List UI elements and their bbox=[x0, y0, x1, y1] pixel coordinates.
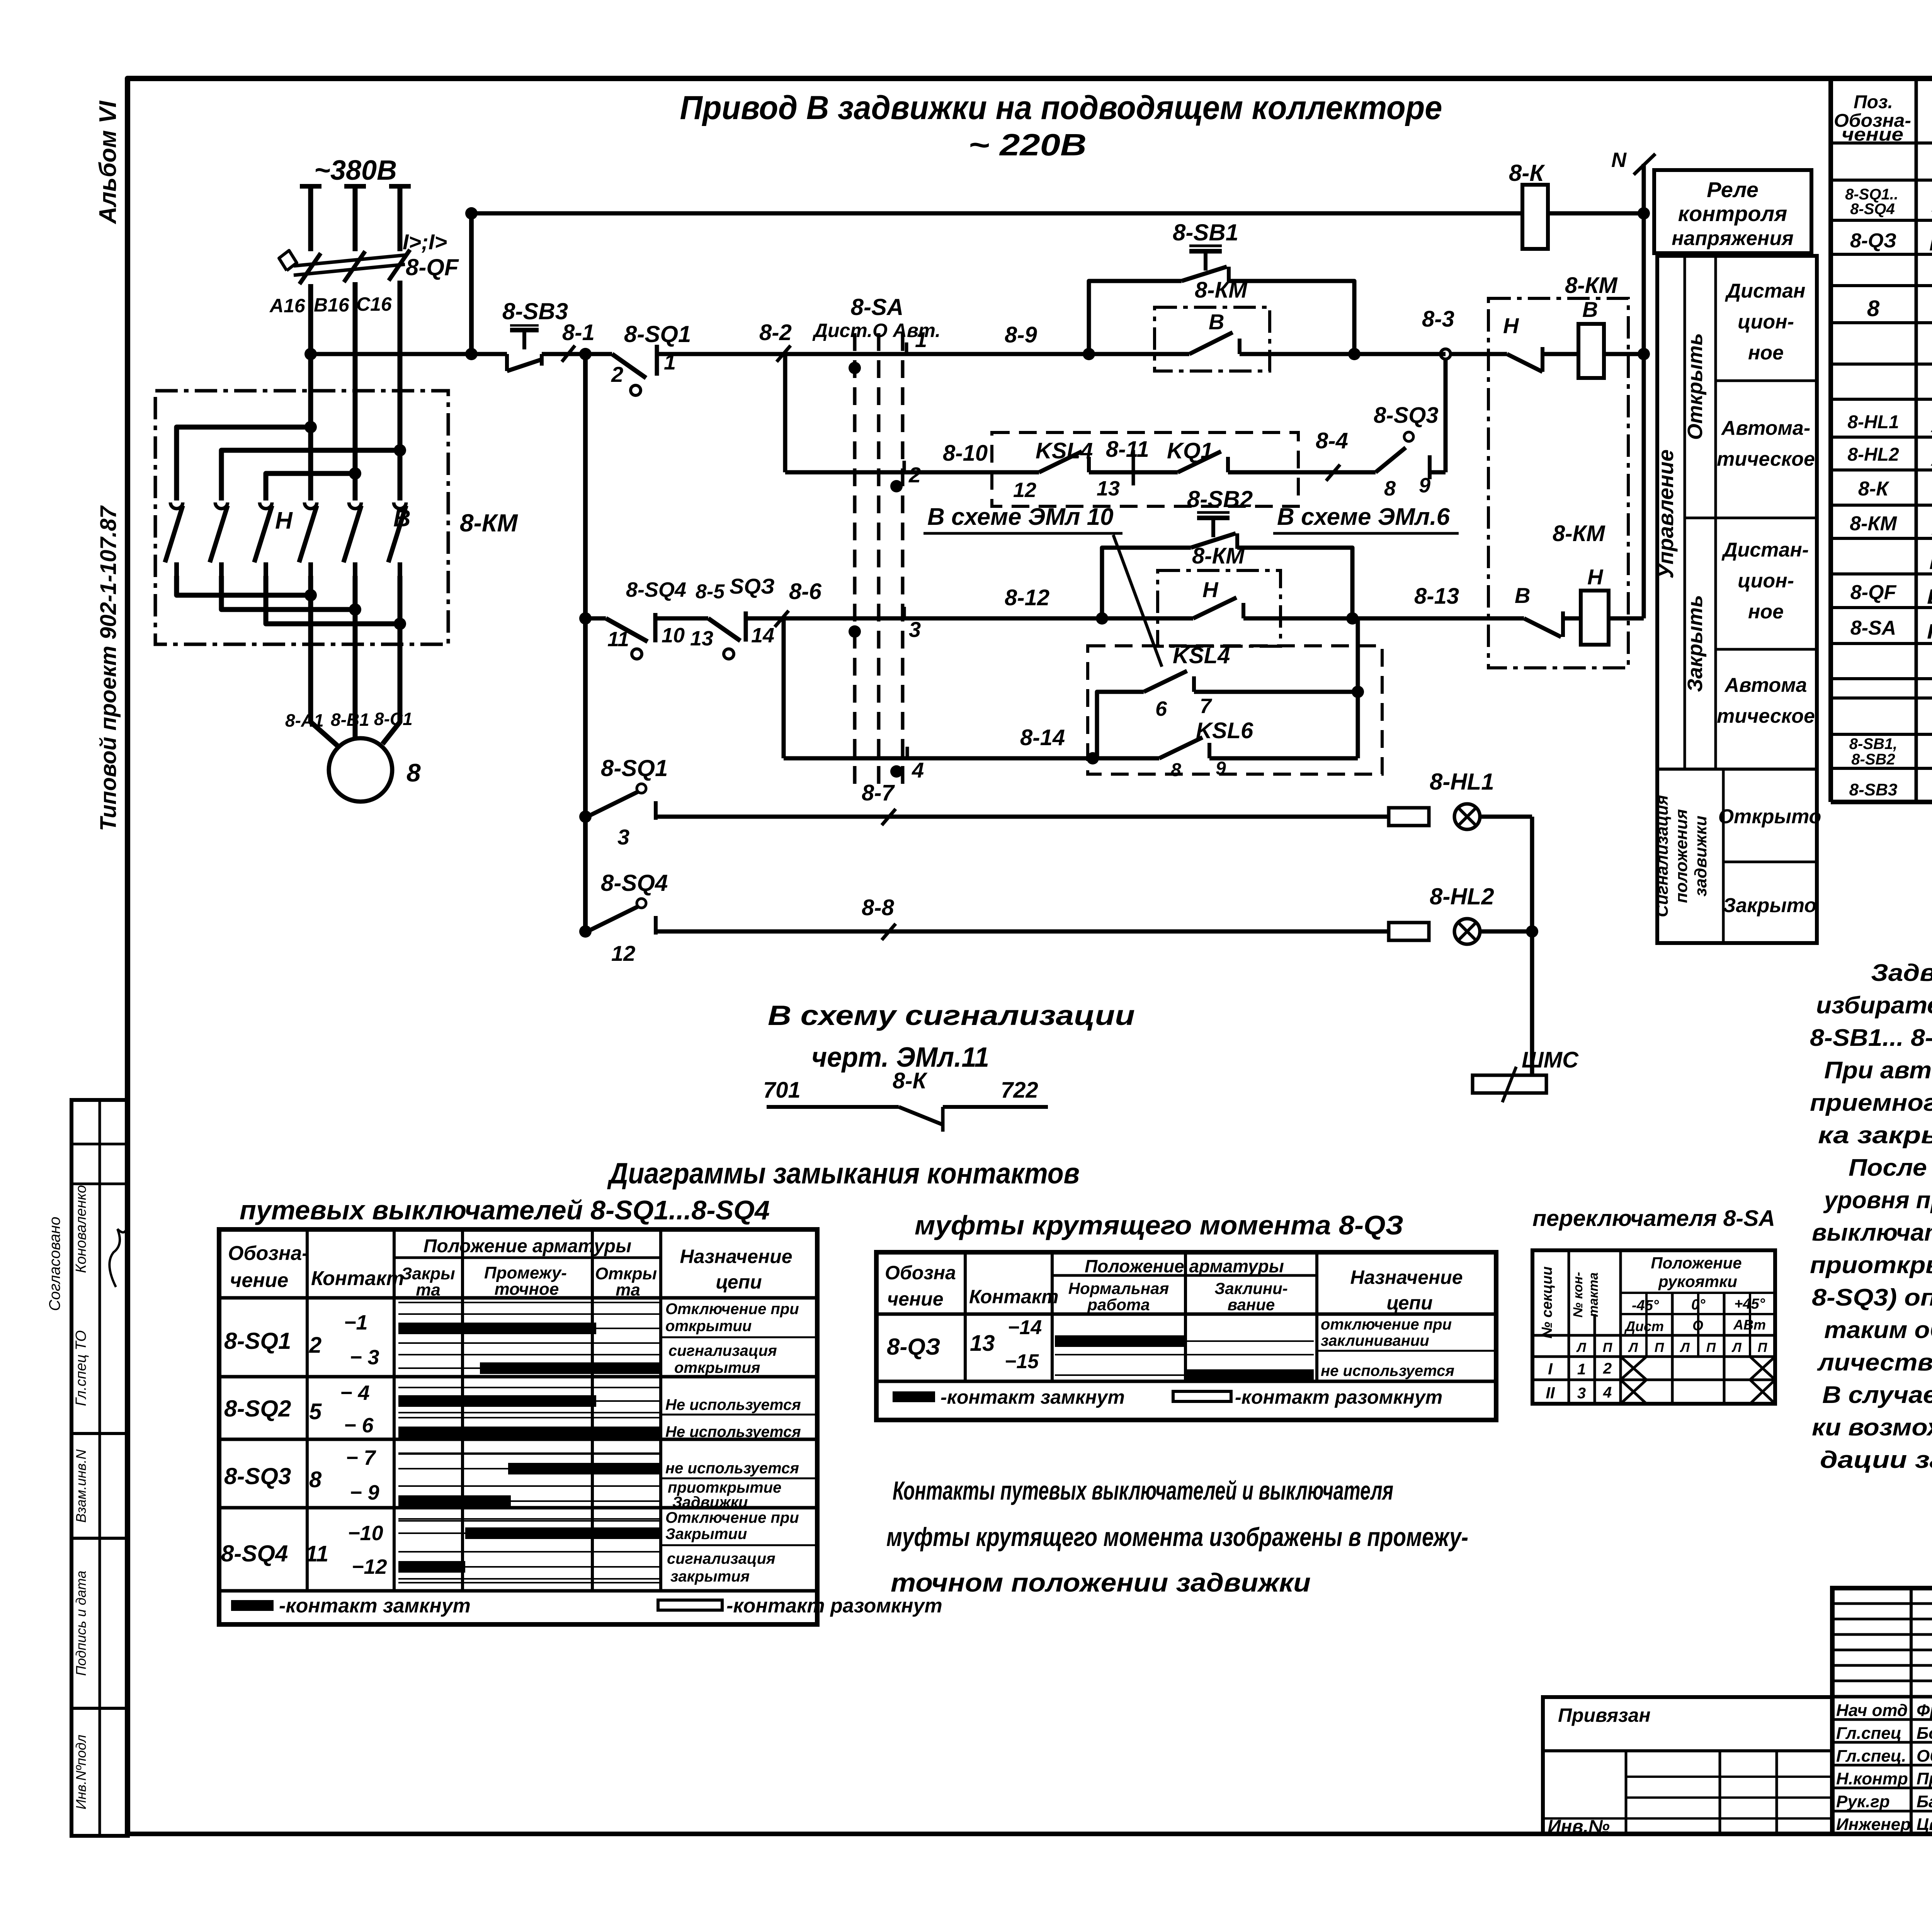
aux contact 8-KM N blade bbox=[1102, 616, 1193, 621]
wire mark 8-11 bbox=[1132, 450, 1135, 485]
SQ3 contact 9 bar bbox=[398, 1500, 661, 1502]
svg-text:Не используется: Не используется bbox=[665, 1396, 801, 1413]
svg-text:Закрытии: Закрытии bbox=[665, 1525, 747, 1542]
svg-text:-контакт замкнут: -контакт замкнут bbox=[940, 1386, 1125, 1408]
phase lead A bbox=[300, 184, 321, 189]
selector dot row4 bbox=[890, 765, 903, 778]
svg-text:работа: работа bbox=[1087, 1296, 1150, 1314]
svg-text:рукоятки: рукоятки bbox=[1658, 1272, 1737, 1290]
svg-text:сигнализация: сигнализация bbox=[667, 1550, 776, 1567]
svg-text:Положение: Положение bbox=[1651, 1254, 1742, 1272]
svg-text:Закрыто: Закрыто bbox=[1723, 894, 1816, 917]
8-KM pole 2 (N) bbox=[215, 502, 228, 509]
aux contact 8-KM V box row1 bbox=[1155, 307, 1270, 371]
svg-text:О: О bbox=[1692, 1318, 1703, 1333]
QZ legend bbox=[893, 1391, 935, 1402]
relay box Rele kontrolya napryazheniya bbox=[1654, 170, 1811, 253]
svg-text:закрытия: закрытия bbox=[670, 1568, 750, 1585]
svg-text:3: 3 bbox=[909, 617, 921, 642]
svg-text:~380В: ~380В bbox=[314, 155, 397, 186]
motor M 8 bbox=[329, 738, 392, 802]
signature rows bbox=[1832, 1718, 1932, 1721]
svg-text:цепи: цепи bbox=[716, 1271, 762, 1293]
svg-text:ка закрывается.: ка закрывается. bbox=[1818, 1122, 1932, 1149]
svg-text:точное: точное bbox=[495, 1280, 559, 1299]
SQ3 contact 7 bar bbox=[398, 1468, 661, 1469]
svg-text:Не используется: Не используется bbox=[665, 1423, 801, 1440]
svg-text:переключателя 8-SА: переключателя 8-SА bbox=[1532, 1206, 1775, 1231]
svg-text:4: 4 bbox=[1603, 1384, 1612, 1401]
8-KM pole 6 (V) bbox=[394, 502, 406, 509]
svg-text:чение: чение bbox=[230, 1269, 288, 1292]
riser row2 to node 8-3 bbox=[1444, 359, 1448, 472]
svg-text:2: 2 bbox=[908, 463, 921, 487]
svg-text:8-HL2: 8-HL2 bbox=[1847, 444, 1899, 465]
dashed box KSL row4 bbox=[1088, 646, 1382, 774]
svg-text:8-4: 8-4 bbox=[1316, 428, 1348, 453]
svg-text:АВт: АВт bbox=[1733, 1317, 1766, 1333]
svg-text:8-SQ1: 8-SQ1 bbox=[624, 321, 691, 347]
node tick 4 bbox=[906, 747, 909, 760]
contact KSL6 (8-9) bbox=[1093, 756, 1159, 761]
svg-text:вание: вание bbox=[1228, 1296, 1275, 1314]
SA table columns bbox=[1568, 1250, 1570, 1404]
QZ contact 14 bar bbox=[1055, 1340, 1314, 1342]
svg-text:2: 2 bbox=[309, 1333, 321, 1358]
svg-text:-45°: -45° bbox=[1632, 1297, 1659, 1314]
svg-text:8-HL1: 8-HL1 bbox=[1847, 412, 1899, 432]
svg-text:Сигнализация: Сигнализация bbox=[1653, 795, 1672, 917]
svg-text:8-К: 8-К bbox=[1858, 478, 1889, 500]
svg-text:П: П bbox=[1706, 1340, 1716, 1355]
svg-text:ное: ное bbox=[1748, 342, 1784, 364]
svg-text:8-SВ2: 8-SВ2 bbox=[1851, 751, 1895, 768]
right vertical KSL join bbox=[1356, 618, 1360, 758]
svg-text:Подпись и дата: Подпись и дата bbox=[73, 1571, 89, 1676]
svg-text:напряжения: напряжения bbox=[1672, 227, 1793, 250]
svg-text:-контакт разомкнут: -контакт разомкнут bbox=[1235, 1386, 1442, 1408]
svg-text:Л: Л bbox=[1576, 1340, 1586, 1355]
node 8-3 bbox=[1440, 349, 1451, 359]
svg-text:Положение арматуры: Положение арматуры bbox=[1085, 1256, 1284, 1276]
legend table Upravlenie bbox=[1657, 256, 1817, 943]
riser to top bus bbox=[469, 213, 474, 354]
svg-text:В схеме ЭМл 10: В схеме ЭМл 10 bbox=[927, 504, 1114, 530]
svg-text:N: N bbox=[1611, 148, 1627, 172]
svg-text:тическое: тическое bbox=[1717, 448, 1815, 470]
svg-text:Нормальная: Нормальная bbox=[1068, 1279, 1169, 1297]
SA table rows bbox=[1621, 1292, 1775, 1294]
wire coil to N bbox=[1548, 211, 1644, 216]
svg-text:В: В bbox=[1582, 297, 1598, 322]
lamp 8-HL1 bbox=[1454, 804, 1480, 829]
svg-text:14: 14 bbox=[751, 624, 774, 647]
8-KM pole 4 (V) bbox=[304, 502, 317, 509]
wire coil N to N line bbox=[1609, 616, 1644, 621]
title block small grid bbox=[1832, 1695, 1932, 1699]
node tick 3 bbox=[903, 607, 906, 620]
svg-text:Н.контр: Н.контр bbox=[1836, 1769, 1908, 1788]
svg-text:− 9: − 9 bbox=[350, 1481, 379, 1504]
svg-text:8-SВ1... 8-SВ3 с комплектног: 8-SВ1... 8-SВ3 с комплектного устройства… bbox=[1810, 1025, 1932, 1051]
resistor row6 bbox=[1389, 923, 1429, 940]
selector dot row2 bbox=[890, 480, 903, 492]
side stamp strip bbox=[71, 1100, 128, 1836]
svg-text:0°: 0° bbox=[1691, 1297, 1706, 1313]
phase lead B bbox=[344, 184, 366, 189]
svg-text:Отключение при: Отключение при bbox=[665, 1509, 799, 1526]
svg-text:KSL4: KSL4 bbox=[1173, 643, 1230, 668]
top bus 220V bbox=[471, 211, 1522, 216]
svg-text:8-5: 8-5 bbox=[696, 581, 725, 603]
contact 8-SQ1 (3) bbox=[637, 784, 646, 793]
svg-text:8-SQ3) определяется в проце: 8-SQ3) определяется в процессе наладки и… bbox=[1812, 1284, 1932, 1311]
svg-text:открытии: открытии bbox=[665, 1318, 752, 1335]
svg-text:Реле: Реле bbox=[1707, 177, 1759, 202]
rail junction row6 bbox=[579, 925, 592, 938]
svg-text:8-SB2: 8-SB2 bbox=[1187, 486, 1253, 512]
svg-text:В схему сигнализации: В схему сигнализации bbox=[768, 1000, 1135, 1031]
dashed box KSL row2 bbox=[992, 432, 1298, 506]
svg-text:5: 5 bbox=[309, 1399, 322, 1424]
SQ extra thin lines bbox=[398, 1302, 661, 1303]
svg-text:KSL4: KSL4 bbox=[1036, 438, 1093, 463]
svg-text:такта: такта bbox=[1586, 1272, 1601, 1317]
svg-text:№ кон-: № кон- bbox=[1571, 1272, 1585, 1318]
svg-text:Взам.инв.N: Взам.инв.N bbox=[73, 1449, 89, 1523]
svg-text:8-SQ4: 8-SQ4 bbox=[1850, 201, 1895, 218]
aux contact 8-KM N box row3 bbox=[1158, 570, 1281, 646]
svg-text:8-SВ3: 8-SВ3 bbox=[1849, 780, 1898, 799]
8-KM pole 1 (N) bbox=[170, 502, 183, 509]
wire row1 to 8-2 bbox=[657, 352, 784, 356]
svg-text:Фролов: Фролов bbox=[1917, 1701, 1932, 1720]
svg-text:9: 9 bbox=[1216, 758, 1226, 779]
svg-text:цепи: цепи bbox=[1386, 1292, 1432, 1314]
contact 8-QZ (13-14) bbox=[708, 618, 740, 641]
svg-text:В: В bbox=[1515, 583, 1530, 608]
svg-text:Диаграммы замыкания контакто: Диаграммы замыкания контактов bbox=[607, 1157, 1080, 1190]
svg-text:8-11: 8-11 bbox=[1106, 437, 1149, 462]
wire lamp2 junction bbox=[1480, 930, 1532, 934]
wire row2 bbox=[785, 470, 992, 475]
wire row4 bbox=[784, 756, 1093, 761]
svg-text:Контакт: Контакт bbox=[969, 1286, 1059, 1308]
svg-text:Дистан-: Дистан- bbox=[1721, 539, 1809, 561]
svg-text:Автома: Автома bbox=[1724, 674, 1807, 696]
svg-text:та: та bbox=[416, 1280, 440, 1299]
svg-text:Коноваленко: Коноваленко bbox=[73, 1185, 89, 1273]
svg-text:11: 11 bbox=[305, 1541, 328, 1566]
svg-text:П: П bbox=[1603, 1340, 1613, 1355]
svg-text:8-QF: 8-QF bbox=[1850, 581, 1897, 604]
svg-text:~ 220В: ~ 220В bbox=[968, 128, 1087, 162]
svg-text:Назначение: Назначение bbox=[1350, 1267, 1463, 1288]
svg-text:Н: Н bbox=[1202, 577, 1219, 602]
svg-text:Гл.спец: Гл.спец bbox=[1836, 1724, 1901, 1743]
svg-text:8: 8 bbox=[1867, 296, 1880, 321]
svg-text:8-SВ1,: 8-SВ1, bbox=[1849, 735, 1898, 752]
svg-text:Л: Л bbox=[1731, 1340, 1742, 1355]
svg-text:8-9: 8-9 bbox=[1005, 322, 1037, 347]
svg-text:8-КМ: 8-КМ bbox=[460, 509, 518, 537]
svg-text:Назначение: Назначение bbox=[680, 1246, 792, 1267]
svg-text:После откачки стоков из пр: После откачки стоков из приемного резерв… bbox=[1849, 1154, 1932, 1181]
svg-text:Н: Н bbox=[275, 507, 293, 534]
svg-text:Инв.№: Инв.№ bbox=[1548, 1817, 1610, 1837]
svg-text:9: 9 bbox=[1419, 474, 1430, 497]
svg-text:4: 4 bbox=[912, 758, 924, 782]
svg-text:избирателем 8-SА : дистанцион: избирателем 8-SА : дистанционное с помощ… bbox=[1816, 992, 1932, 1019]
svg-text:положения: положения bbox=[1672, 809, 1691, 903]
svg-text:1: 1 bbox=[915, 327, 927, 352]
svg-text:+45°: +45° bbox=[1734, 1296, 1765, 1312]
svg-text:8-SQ3: 8-SQ3 bbox=[1374, 403, 1439, 428]
svg-text:Рук.гр: Рук.гр bbox=[1836, 1792, 1890, 1811]
svg-text:I>;I>: I>;I> bbox=[403, 230, 447, 254]
legend signalizatsiya section bbox=[1722, 769, 1725, 943]
wire row5 bbox=[672, 815, 1389, 819]
contactor 8-KM power box bbox=[155, 391, 448, 644]
svg-text:−15: −15 bbox=[1005, 1350, 1039, 1373]
wire mark 8-7 bbox=[882, 809, 896, 825]
svg-text:722: 722 bbox=[1001, 1078, 1038, 1103]
svg-text:Задвижки: Задвижки bbox=[672, 1494, 748, 1511]
svg-text:8-SB1: 8-SB1 bbox=[1173, 220, 1238, 245]
svg-text:приоткрытия задвижки / настрой: приоткрытия задвижки / настройка путевог… bbox=[1810, 1252, 1932, 1279]
wire coil V to N line bbox=[1604, 352, 1644, 356]
svg-text:цион-: цион- bbox=[1738, 311, 1794, 333]
wire lamp1 to drop bbox=[1480, 815, 1532, 819]
svg-text:13: 13 bbox=[690, 627, 713, 650]
junction bypass row1 left bbox=[1083, 348, 1095, 360]
SQ legend bbox=[231, 1600, 274, 1611]
svg-text:Цветочкино: Цветочкино bbox=[1917, 1815, 1932, 1834]
svg-text:3: 3 bbox=[1577, 1385, 1586, 1402]
svg-text:таким образом, чтобы обеспе: таким образом, чтобы обеспечить приток с… bbox=[1824, 1317, 1932, 1343]
push button 8-SB2 bbox=[1191, 533, 1236, 548]
rail junction row3 bbox=[579, 612, 592, 625]
svg-text:8-SB3: 8-SB3 bbox=[502, 298, 568, 324]
svg-text:уровня приоткрытия задвижка: уровня приоткрытия задвижка , с помощью … bbox=[1823, 1187, 1932, 1214]
parts table grid bbox=[1828, 78, 1833, 802]
circuit breaker 8-QF bbox=[294, 255, 405, 266]
svg-text:8-10: 8-10 bbox=[943, 441, 988, 466]
svg-text:Гл.спец.: Гл.спец. bbox=[1836, 1747, 1906, 1765]
svg-text:− 7: − 7 bbox=[346, 1446, 377, 1469]
svg-text:А16: А16 bbox=[269, 295, 306, 317]
svg-text:заклинивании: заклинивании bbox=[1321, 1332, 1429, 1349]
svg-text:точном положении задвижки: точном положении задвижки bbox=[891, 1568, 1311, 1597]
selector 8-SA dashed lines bbox=[853, 333, 857, 793]
wire 8-13 bbox=[1352, 616, 1524, 621]
svg-text:Дист: Дист bbox=[1624, 1318, 1664, 1334]
svg-text:8-8: 8-8 bbox=[862, 895, 895, 920]
svg-text:Открыто: Открыто bbox=[1718, 805, 1821, 828]
svg-text:−12: −12 bbox=[352, 1555, 387, 1578]
privyazan block bbox=[1543, 1697, 1832, 1834]
svg-text:Обозная: Обозная bbox=[1917, 1747, 1932, 1765]
svg-text:выключателя 8-SQ3, частично: выключателя 8-SQ3, частично открывается.… bbox=[1812, 1219, 1932, 1246]
resistor row5 bbox=[1389, 808, 1429, 826]
svg-text:8-К: 8-К bbox=[1509, 160, 1545, 186]
svg-text:8-SQ2: 8-SQ2 bbox=[224, 1396, 291, 1422]
svg-text:− 4: − 4 bbox=[340, 1381, 370, 1405]
SQ1 contact 3 bar bbox=[398, 1367, 661, 1369]
svg-text:8-HL1: 8-HL1 bbox=[1430, 769, 1494, 795]
svg-text:ки возможно только при сняти: ки возможно только при снятии блокировки… bbox=[1812, 1414, 1932, 1441]
svg-text:Альбом VI: Альбом VI bbox=[95, 100, 121, 225]
svg-text:С16: С16 bbox=[356, 293, 392, 315]
svg-text:Автома-: Автома- bbox=[1721, 417, 1810, 439]
svg-text:2: 2 bbox=[1603, 1360, 1612, 1377]
svg-text:сигнализация: сигнализация bbox=[668, 1342, 777, 1359]
svg-text:открытия: открытия bbox=[674, 1359, 760, 1376]
svg-text:отключение при: отключение при bbox=[1321, 1316, 1452, 1333]
svg-text:та: та bbox=[616, 1280, 640, 1299]
push button 8-SB3 bbox=[505, 354, 509, 371]
svg-text:не используется: не используется bbox=[1321, 1362, 1454, 1379]
svg-text:8-SA: 8-SA bbox=[851, 294, 904, 320]
svg-text:8-QЗ: 8-QЗ bbox=[887, 1334, 940, 1360]
svg-text:13: 13 bbox=[1097, 477, 1120, 500]
svg-text:Заклини-: Заклини- bbox=[1214, 1279, 1287, 1297]
svg-text:3: 3 bbox=[617, 825, 629, 849]
svg-text:8-7: 8-7 bbox=[862, 780, 895, 805]
svg-text:Привод В задвижки на подводяще: Привод В задвижки на подводящем коллекто… bbox=[680, 89, 1442, 126]
N line bbox=[1642, 164, 1646, 618]
svg-text:8-SQ4: 8-SQ4 bbox=[601, 870, 668, 896]
dash-dot box 8-KM right bbox=[1488, 298, 1628, 668]
svg-text:Л: Л bbox=[1679, 1340, 1690, 1355]
svg-text:− 6: − 6 bbox=[344, 1414, 374, 1437]
svg-text:дации затопления.: дации затопления. bbox=[1820, 1447, 1932, 1473]
svg-text:Н: Н bbox=[1587, 565, 1604, 589]
svg-text:8-13: 8-13 bbox=[1414, 584, 1459, 609]
svg-text:8-SQ4: 8-SQ4 bbox=[221, 1541, 288, 1566]
svg-text:8-2: 8-2 bbox=[759, 320, 792, 345]
svg-text:II: II bbox=[1546, 1384, 1555, 1402]
8-KM jumper C to pole2 bbox=[221, 450, 400, 501]
busbar ShMS bbox=[1473, 1075, 1546, 1093]
svg-text:задвижки: задвижки bbox=[1691, 815, 1710, 896]
svg-text:8: 8 bbox=[1384, 477, 1396, 500]
svg-text:8-SQ1: 8-SQ1 bbox=[224, 1328, 291, 1354]
svg-text:Согласовано: Согласовано bbox=[46, 1217, 63, 1311]
svg-text:муфты крутящего момента 8-Q: муфты крутящего момента 8-QЗ bbox=[915, 1210, 1403, 1240]
svg-text:8-6: 8-6 bbox=[789, 579, 822, 604]
coil 8-KM V bbox=[1578, 324, 1604, 378]
svg-text:В случае затопления машза: В случае затопления машзала приоткрытие … bbox=[1822, 1382, 1932, 1408]
wire mark 8-4 bbox=[1326, 465, 1340, 481]
leader line EMl10 bbox=[1113, 535, 1162, 667]
QZ contact 15 bar bbox=[1055, 1374, 1314, 1376]
phase lead C bbox=[389, 184, 411, 189]
svg-text:личестве, равном производите: личестве, равном производительности одно… bbox=[1817, 1349, 1932, 1376]
svg-text:8-SА: 8-SА bbox=[1850, 617, 1896, 639]
svg-text:8: 8 bbox=[309, 1467, 322, 1492]
wire to 8-6 bbox=[746, 616, 784, 621]
svg-text:13: 13 bbox=[970, 1331, 995, 1356]
8-KM jumper A to pole1 bbox=[177, 427, 311, 501]
wire row3 through selector bbox=[784, 616, 1102, 621]
svg-text:8-КМ: 8-КМ bbox=[1850, 512, 1897, 535]
branch to KSL4 6-7 bbox=[1093, 692, 1144, 758]
svg-text:Поз.: Поз. bbox=[1854, 92, 1893, 112]
svg-text:8-HL2: 8-HL2 bbox=[1430, 884, 1494, 909]
8-KM pole outputs merge bbox=[177, 576, 311, 595]
QZ table columns bbox=[964, 1252, 967, 1381]
wire SB3 to rail bbox=[542, 352, 585, 356]
svg-text:чение: чение bbox=[1842, 124, 1903, 145]
svg-text:приставками контактными ПКЛ-22: приставками контактными ПКЛ-2204 bbox=[1929, 551, 1932, 574]
phase wires to contactor bbox=[308, 284, 313, 501]
svg-text:11: 11 bbox=[607, 628, 629, 651]
contact KSL4 12-13 bbox=[992, 470, 1039, 475]
svg-text:Положение арматуры: Положение арматуры bbox=[423, 1236, 631, 1256]
branch row1 to row2 bbox=[783, 354, 787, 472]
SQ table row lines bbox=[219, 1375, 817, 1379]
contact 8-SQ4 (12) bbox=[637, 899, 646, 908]
svg-text:Типовой проект 902-1-107.87: Типовой проект 902-1-107.87 bbox=[96, 505, 121, 831]
SA table outer bbox=[1532, 1250, 1775, 1404]
wire mark 8-1 bbox=[562, 346, 575, 362]
svg-text:-контакт замкнут: -контакт замкнут bbox=[279, 1595, 471, 1617]
svg-text:Обозна-: Обозна- bbox=[228, 1242, 309, 1265]
svg-text:8-SQ1: 8-SQ1 bbox=[601, 755, 668, 781]
svg-text:8-12: 8-12 bbox=[1005, 585, 1049, 610]
node tick 1 bbox=[905, 342, 908, 356]
svg-text:Нач отд: Нач отд bbox=[1836, 1701, 1908, 1720]
svg-text:муфты крутящего момента изо: муфты крутящего момента изображены в про… bbox=[886, 1522, 1468, 1552]
rail junction row5 bbox=[579, 810, 592, 823]
svg-text:Обозна: Обозна bbox=[885, 1262, 956, 1284]
label N with tick bbox=[1634, 154, 1655, 175]
svg-text:Инженер: Инженер bbox=[1836, 1815, 1911, 1834]
drop to ShMS bbox=[1530, 931, 1534, 1075]
node tick 2 bbox=[903, 461, 906, 474]
lamp 8-HL2 bbox=[1454, 919, 1480, 944]
svg-text:8-С1: 8-С1 bbox=[374, 709, 413, 729]
branch row3 to row4 bbox=[782, 618, 786, 758]
svg-text:В: В bbox=[1209, 310, 1224, 334]
wire mark 8-2 bbox=[777, 346, 791, 362]
contact 8-SQ4 (11-10) bbox=[585, 616, 606, 621]
svg-text:12: 12 bbox=[1013, 478, 1036, 502]
svg-text:Бондарь: Бондарь bbox=[1917, 1724, 1932, 1743]
contact 8-SQ1 (2-1) bbox=[585, 352, 612, 356]
svg-text:Привязан: Привязан bbox=[1558, 1704, 1651, 1726]
svg-text:−10: −10 bbox=[348, 1522, 383, 1545]
svg-text:Барчан: Барчан bbox=[1917, 1792, 1932, 1811]
wire row1 to node 8-3 bbox=[1354, 352, 1446, 356]
wire row6 bbox=[672, 930, 1389, 934]
contact KQ1 bbox=[1178, 451, 1221, 472]
contact 8-SQ3 (8-9) bbox=[1376, 448, 1406, 472]
svg-text:8: 8 bbox=[1171, 760, 1181, 780]
junction bypass row3 bbox=[1096, 612, 1108, 625]
svg-text:701: 701 bbox=[763, 1078, 801, 1103]
svg-text:10: 10 bbox=[662, 624, 685, 647]
bypass wire 8-SB1 bbox=[1089, 281, 1182, 354]
svg-text:8-К: 8-К bbox=[893, 1068, 928, 1093]
bypass wire 8-SB2 bbox=[1102, 548, 1191, 618]
SQ2 contact 6 bar bbox=[398, 1432, 661, 1433]
svg-text:Н: Н bbox=[1503, 313, 1519, 338]
svg-text:П: П bbox=[1758, 1340, 1768, 1355]
push button 8-SB1 bbox=[1182, 267, 1227, 281]
svg-text:Контакты путевых выключателе: Контакты путевых выключателей и выключат… bbox=[893, 1476, 1393, 1505]
